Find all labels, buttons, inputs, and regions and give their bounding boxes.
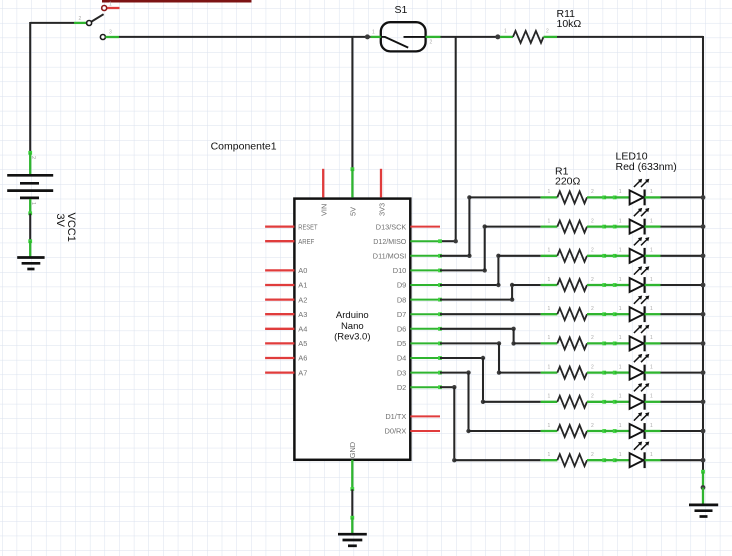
node junction row 7 [701,370,706,375]
LED row 6 [615,325,661,352]
svg-text:2: 2 [591,335,594,341]
U1 pin D9 [397,281,442,290]
svg-text:2: 2 [30,156,36,159]
wire right bus [702,36,704,472]
switch S1 pin 2 lead [426,37,441,46]
resistor R1 label [555,165,581,187]
wire D12 drop [454,37,458,244]
LED row 5 [615,296,661,323]
svg-text:1: 1 [650,335,653,341]
switch SW1 blade [90,14,103,22]
svg-text:1: 1 [548,189,551,195]
svg-text:D13/SCK: D13/SCK [376,222,407,231]
switch S1 pin 1 lead [371,30,381,37]
resistor R row 7 [541,364,606,378]
U1 pin D3 [397,368,442,377]
node junction row 3 [701,253,706,258]
svg-text:1: 1 [548,452,551,458]
U1 pin D2 [397,383,442,392]
svg-text:1: 1 [619,189,622,195]
wire row 8 [604,400,616,404]
wire row 1 to bus [661,196,704,198]
wire D6 to row 6 [440,327,541,346]
U1 pin D1/TX [385,412,440,421]
svg-text:2: 2 [430,40,433,46]
wire row 6 [604,342,616,346]
U1 pin AREF [265,237,315,246]
node junction [701,485,706,490]
U1 pin RESET [265,222,318,231]
wire row 7 to bus [661,372,704,374]
svg-text:Nano: Nano [341,321,364,332]
svg-text:2: 2 [79,16,82,22]
svg-text:1: 1 [548,248,551,254]
svg-text:2: 2 [546,29,549,35]
switch S1 label [395,4,408,16]
wire row 10 to bus [661,459,704,461]
svg-text:1: 1 [619,394,622,400]
wire [29,22,31,153]
resistor R row 5 [541,306,606,320]
svg-text:10kΩ: 10kΩ [557,18,582,30]
svg-text:1: 1 [650,189,653,195]
svg-text:1: 1 [548,394,551,400]
U1 pin D8 [397,295,442,304]
svg-text:1: 1 [650,306,653,312]
wire [351,489,353,517]
wire D2 to row 10 [440,385,541,462]
resistor R11 [500,29,557,43]
svg-text:D0/RX: D0/RX [385,427,407,436]
wire [29,214,31,242]
node junction row 4 [701,283,706,288]
U1 pin D7 [397,310,442,319]
svg-text:1: 1 [30,202,36,205]
svg-text:220Ω: 220Ω [555,175,581,187]
ground [17,258,44,270]
LED row 9 [615,412,661,439]
svg-text:1: 1 [650,277,653,283]
svg-text:1: 1 [650,364,653,370]
switch S1 [381,22,426,51]
U1 pin 5V [349,167,358,216]
U1 pin A3 [265,310,307,319]
svg-text:A5: A5 [298,339,307,348]
wire row 6 to bus [661,342,704,344]
wire [701,470,705,488]
wire row 2 [604,225,616,229]
U1 pin D6 [397,325,442,334]
svg-text:1: 1 [548,306,551,312]
svg-text:D3: D3 [397,368,406,377]
battery VCC1 value label [54,213,77,242]
svg-text:S1: S1 [395,4,408,16]
svg-text:2: 2 [591,248,594,254]
wire [30,22,74,24]
U1 value label [334,310,370,343]
wire row 4 to bus [661,284,704,286]
node Componente1 label [211,141,277,153]
svg-text:A0: A0 [298,266,307,275]
svg-text:2: 2 [591,364,594,370]
wire row 8 to bus [661,401,704,403]
wire D4 to row 8 [440,356,541,404]
wire D10 to row 2 [440,224,541,272]
battery VCC1 pin 1 lead [28,199,36,215]
resistor R row 3 [541,248,606,262]
resistor R11 label [557,8,582,30]
svg-text:1: 1 [650,218,653,224]
wire [102,0,252,3]
node junction row 2 [701,224,706,229]
svg-text:2: 2 [591,277,594,283]
svg-text:D1/TX: D1/TX [385,412,406,421]
ground [338,534,367,546]
svg-text:3V: 3V [54,214,66,228]
svg-text:1: 1 [109,2,112,8]
U1 pin GND [348,442,357,491]
svg-text:D2: D2 [397,383,406,392]
node junction row 6 [701,341,706,346]
wire D12 horizontal [440,240,456,242]
wire D5 to row 7 [440,341,541,375]
svg-text:AREF: AREF [298,237,314,246]
wire row 5 to bus [661,313,704,315]
node junction row 9 [701,429,706,434]
wire D7 to row 5 [440,313,541,315]
svg-text:D4: D4 [397,354,406,363]
svg-text:VIN: VIN [320,204,329,216]
resistor R row 1 [541,189,606,203]
node junction row 1 [701,195,706,200]
svg-text:1: 1 [548,218,551,224]
U1 pin D12/MISO [373,237,442,246]
wire [702,488,704,504]
svg-text:D10: D10 [393,266,407,275]
svg-text:2: 2 [591,189,594,195]
svg-text:3: 3 [109,30,112,36]
U1 pin D10 [393,266,442,275]
svg-text:3V3: 3V3 [377,203,386,216]
svg-text:1: 1 [650,248,653,254]
node junction [365,34,370,39]
svg-text:1: 1 [619,364,622,370]
svg-text:1: 1 [619,218,622,224]
resistor R row 2 [541,218,606,232]
U1 pin D5 [397,339,442,348]
U1 pin D13/SCK [376,222,440,231]
svg-text:1: 1 [548,423,551,429]
resistor R row 8 [541,394,606,408]
wire D11 to row 1 [440,195,541,258]
node junction [495,34,500,39]
svg-text:2: 2 [591,306,594,312]
U1 pin D11/MOSI [373,252,442,261]
svg-text:1: 1 [548,364,551,370]
LED row 4 [615,266,661,293]
U1 pin D4 [397,354,442,363]
svg-text:D9: D9 [397,281,406,290]
op-amp U1 Arduino Nano body [294,199,410,460]
node junction row 10 [701,458,706,463]
U1 pin A0 [265,266,307,275]
wire row 3 [604,254,616,258]
wire D8 to row 4 [440,283,541,302]
svg-text:D11/MOSI: D11/MOSI [373,252,407,261]
svg-text:1: 1 [372,30,375,36]
LED row 3 [615,237,661,264]
svg-text:(Rev3.0): (Rev3.0) [334,332,370,343]
wire row 10 [604,458,616,462]
svg-text:1: 1 [548,277,551,283]
svg-text:Arduino: Arduino [336,310,369,321]
svg-text:1: 1 [650,394,653,400]
svg-text:1: 1 [504,29,507,35]
svg-text:2: 2 [591,394,594,400]
U1 pin A5 [265,339,307,348]
U1 pin A6 [265,354,307,363]
wire row 1 [604,196,616,200]
svg-text:1: 1 [619,248,622,254]
wire row 9 [604,429,616,433]
resistor R row 10 [541,452,606,466]
switch SW1 pin 2 [74,16,92,26]
svg-text:D12/MISO: D12/MISO [373,237,406,246]
svg-text:A6: A6 [298,354,307,363]
LED row 2 [615,208,661,235]
svg-text:A4: A4 [298,325,307,334]
svg-text:GND: GND [348,442,357,458]
svg-text:1: 1 [650,423,653,429]
ground [689,505,718,517]
svg-text:1: 1 [619,277,622,283]
resistor R row 9 [541,423,606,437]
wire row 5 [604,312,616,316]
wire D9 to row 3 [440,254,541,288]
svg-text:D5: D5 [397,339,406,348]
svg-text:RESET: RESET [298,222,318,231]
wire row 4 [604,283,616,287]
wire row 9 to bus [661,430,704,432]
switch SW1 pin 3 [100,30,119,40]
U1 pin D0/RX [385,427,440,436]
battery VCC1 pin 2 lead [28,151,36,174]
LED row 1 [615,179,661,206]
resistor R row 6 [541,335,606,349]
wire [557,36,703,38]
U1 pin A4 [265,325,307,334]
U1 pin A7 [265,368,307,377]
U1 pin A1 [265,281,307,290]
svg-text:5V: 5V [349,207,358,216]
U1 pin VIN [320,169,329,216]
wire [441,36,498,38]
wire row 2 to bus [661,226,704,228]
resistor R row 4 [541,277,606,291]
svg-text:D7: D7 [397,310,406,319]
wire [119,36,371,38]
wire [350,516,354,533]
switch SW1 pin 1 [102,2,120,11]
svg-text:1: 1 [619,423,622,429]
svg-text:2: 2 [591,218,594,224]
wire row 3 to bus [661,255,704,257]
svg-text:D8: D8 [397,295,406,304]
svg-text:A3: A3 [298,310,307,319]
svg-text:1: 1 [619,335,622,341]
svg-text:1: 1 [619,306,622,312]
U1 pin A2 [265,295,307,304]
LED row 7 [615,354,661,381]
svg-text:2: 2 [591,452,594,458]
svg-text:1: 1 [548,335,551,341]
svg-text:1: 1 [619,452,622,458]
battery VCC1 [7,175,53,198]
svg-text:D6: D6 [397,325,406,334]
wire D3 to row 9 [440,370,541,433]
svg-text:A7: A7 [298,368,307,377]
LED10 label [616,151,677,173]
U1 pin 3V3 [377,169,386,216]
node junction row 5 [701,312,706,317]
LED row 8 [615,383,661,410]
wire 5V drop [351,37,353,169]
svg-text:Red (633nm): Red (633nm) [616,161,677,173]
node junction row 8 [701,399,706,404]
LED row 10 [615,442,661,469]
svg-text:A2: A2 [298,295,307,304]
wire [28,239,32,256]
wire row 7 [604,371,616,375]
svg-text:1: 1 [650,452,653,458]
svg-text:Componente1: Componente1 [211,141,277,153]
svg-text:2: 2 [591,423,594,429]
svg-text:A1: A1 [298,281,307,290]
